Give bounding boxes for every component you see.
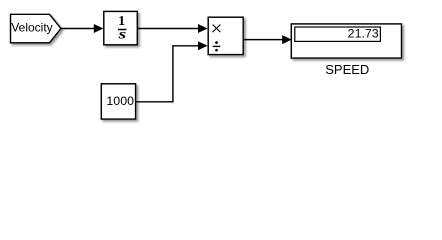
- svg-text:SPEED: SPEED: [325, 62, 369, 77]
- svg-text:21.73: 21.73: [348, 27, 379, 41]
- svg-text:Velocity: Velocity: [11, 20, 52, 34]
- svg-text:s: s: [117, 28, 127, 43]
- svg-text:1000: 1000: [106, 94, 134, 108]
